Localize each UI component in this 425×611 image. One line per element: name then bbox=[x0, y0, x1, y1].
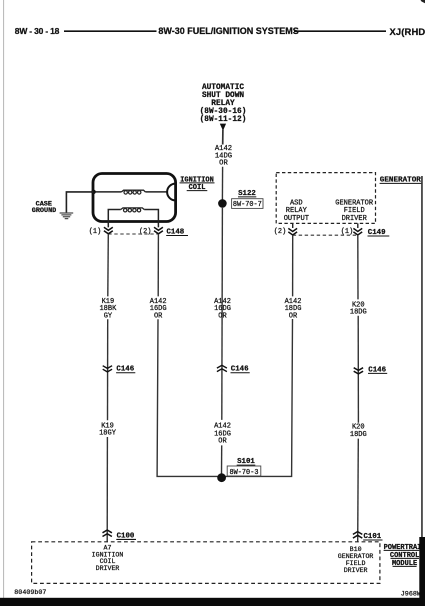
wire A142 segment to splice S122 bbox=[221, 167, 223, 201]
wire label A142 16DG OR center upper bbox=[214, 298, 231, 321]
page edge block right bottom bbox=[419, 537, 425, 606]
automatic shut down relay label bbox=[200, 84, 247, 124]
svg-text:DRIVER: DRIVER bbox=[96, 565, 120, 572]
wire label A142 14DG OR bbox=[215, 145, 232, 168]
ignition coil label bbox=[180, 176, 214, 192]
primary winding wire bbox=[94, 191, 122, 193]
page edge thin line right bbox=[421, 176, 423, 538]
wire K19 middle segment bbox=[107, 319, 109, 420]
svg-text:SHUT DOWN: SHUT DOWN bbox=[202, 92, 244, 100]
wire label A142 16DG OR left bbox=[150, 298, 167, 321]
connector C146 center chevrons bbox=[217, 365, 227, 371]
svg-text:(8W-11-12): (8W-11-12) bbox=[200, 116, 247, 124]
generator pin stubs bbox=[292, 223, 294, 228]
svg-text:ASD: ASD bbox=[290, 199, 303, 207]
svg-text:18GY: 18GY bbox=[99, 430, 117, 438]
connector C100 chevrons bbox=[103, 530, 112, 537]
wire to case ground bbox=[66, 192, 93, 213]
corner scan mark bbox=[421, 0, 425, 3]
svg-text:GROUND: GROUND bbox=[32, 207, 56, 215]
coil tower terminal bbox=[167, 184, 175, 201]
wire A142 18DG OR upper segment bbox=[292, 235, 294, 296]
node: case ground junction bbox=[91, 190, 96, 195]
powertrain control module dashed box bbox=[32, 542, 380, 584]
connector C148 pin 2 chevrons bbox=[154, 227, 163, 234]
generator field driver label bbox=[335, 199, 374, 223]
connector C146 left chevrons bbox=[103, 366, 112, 372]
wire label K19 18GY bbox=[99, 423, 117, 438]
connector C149 dashed line bbox=[293, 234, 358, 236]
header rule right bbox=[294, 30, 386, 32]
splice S122 bbox=[218, 199, 227, 208]
powertrain control module label bbox=[384, 544, 425, 568]
svg-text:8W-30 FUEL/IGNITION SYSTEMS: 8W-30 FUEL/IGNITION SYSTEMS bbox=[158, 26, 298, 36]
wire A142 16DG OR (coil pin 2) upper segment bbox=[157, 234, 159, 296]
svg-text:FIELD: FIELD bbox=[346, 560, 366, 567]
wire A142 14DG OR upper segment bbox=[222, 130, 224, 145]
wire label K19 18BK GY bbox=[99, 298, 117, 321]
svg-text:OR: OR bbox=[219, 160, 228, 168]
bottom black band bbox=[0, 598, 425, 606]
wire label K20 18DG upper bbox=[350, 302, 367, 317]
S101 reference box 8W-70-3 bbox=[227, 466, 261, 476]
svg-text:OR: OR bbox=[289, 313, 298, 321]
secondary winding bbox=[108, 210, 121, 228]
svg-text:OR: OR bbox=[218, 313, 227, 321]
header rule left bbox=[64, 30, 157, 32]
svg-text:RELAY: RELAY bbox=[211, 100, 235, 108]
svg-text:RELAY: RELAY bbox=[286, 207, 308, 215]
svg-text:MODULE: MODULE bbox=[392, 560, 417, 568]
svg-text:18DG: 18DG bbox=[350, 309, 367, 317]
wire K20 middle segment bbox=[357, 316, 359, 423]
wire from coil pin 2 down to S101 bus bbox=[157, 319, 292, 476]
connector C101 chevrons bbox=[353, 532, 362, 539]
svg-text:18DG: 18DG bbox=[350, 431, 367, 439]
svg-text:DRIVER: DRIVER bbox=[344, 567, 368, 574]
ignition coil box bbox=[93, 174, 176, 222]
wire center lower segment to S101 bbox=[221, 445, 223, 475]
splice S101 bbox=[217, 473, 226, 482]
svg-text:OR: OR bbox=[218, 438, 227, 446]
wire K19 lower segment bbox=[106, 437, 108, 542]
wire A142 segment S122 to C146 and below bbox=[221, 208, 224, 420]
S122 reference box 8W-70-7 bbox=[232, 199, 263, 209]
svg-text:CONTROL: CONTROL bbox=[390, 552, 419, 560]
B10 generator field driver label bbox=[338, 546, 374, 574]
connector C149 pin 1 chevrons bbox=[353, 228, 362, 235]
svg-text:(1): (1) bbox=[89, 228, 101, 236]
page left edge faint line bbox=[3, 0, 4, 598]
case ground symbol bbox=[60, 212, 74, 214]
svg-text:8W - 30 - 18: 8W - 30 - 18 bbox=[15, 26, 60, 36]
wire label A142 18DG OR right bbox=[285, 298, 302, 321]
wire K19 upper segment bbox=[107, 234, 110, 296]
connector C148 pin 1 chevrons bbox=[104, 227, 113, 234]
svg-text:80409b07: 80409b07 bbox=[14, 589, 46, 597]
svg-text:(2): (2) bbox=[139, 228, 151, 236]
svg-text:FIELD: FIELD bbox=[344, 207, 365, 215]
wire label K20 18DG lower bbox=[350, 423, 367, 439]
svg-text:POWERTRAIN: POWERTRAIN bbox=[384, 544, 425, 552]
primary winding coil bbox=[122, 190, 146, 192]
svg-text:AUTOMATIC: AUTOMATIC bbox=[202, 84, 244, 92]
asd relay output label bbox=[284, 199, 309, 223]
A7 ignition coil driver label bbox=[92, 545, 124, 572]
connector C149 pin 2 chevrons bbox=[288, 228, 297, 235]
generator dashed box bbox=[276, 173, 375, 224]
svg-text:(2): (2) bbox=[274, 228, 286, 236]
wire K20 lower segment bbox=[357, 439, 360, 542]
svg-text:OUTPUT: OUTPUT bbox=[284, 215, 309, 223]
svg-text:GENERATOR: GENERATOR bbox=[335, 199, 374, 207]
svg-text:8W-70-3: 8W-70-3 bbox=[230, 469, 259, 477]
case ground label bbox=[32, 201, 56, 216]
feed arrow from ASD relay bbox=[220, 124, 226, 131]
connector C146 right chevrons bbox=[354, 368, 363, 374]
svg-text:DRIVER: DRIVER bbox=[342, 215, 368, 223]
svg-text:XJ(RHD): XJ(RHD) bbox=[390, 26, 425, 37]
connector C148 dashed line bbox=[108, 233, 158, 235]
wire label A142 16DG OR center lower bbox=[214, 423, 231, 446]
wire K20 upper segment bbox=[357, 235, 359, 299]
svg-text:8W-70-7: 8W-70-7 bbox=[233, 201, 262, 209]
svg-text:(8W-30-16): (8W-30-16) bbox=[200, 108, 247, 116]
